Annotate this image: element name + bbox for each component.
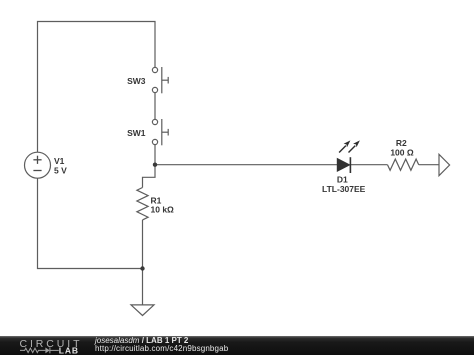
svg-text:LTL-307EE: LTL-307EE bbox=[322, 184, 366, 194]
svg-text:100 Ω: 100 Ω bbox=[390, 148, 414, 158]
svg-text:LAB: LAB bbox=[59, 346, 79, 355]
svg-text:10 kΩ: 10 kΩ bbox=[151, 205, 175, 215]
svg-text:SW3: SW3 bbox=[127, 76, 146, 86]
svg-text:5 V: 5 V bbox=[54, 165, 67, 175]
svg-text:V1: V1 bbox=[54, 156, 65, 166]
svg-text:SW1: SW1 bbox=[127, 128, 146, 138]
